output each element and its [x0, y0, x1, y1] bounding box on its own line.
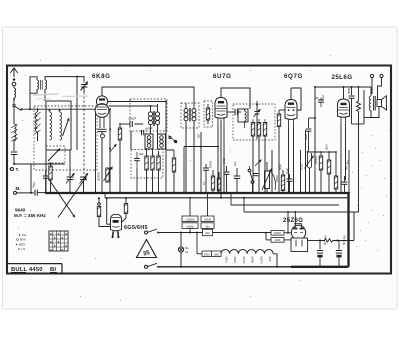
antenna coil hatched: [35, 112, 41, 134]
6K8G anode: [99, 98, 105, 100]
RF coil L3: [59, 110, 62, 140]
eye target resistor: [122, 197, 128, 222]
eye feed wire: [106, 197, 111, 224]
wire v305: [304, 130, 306, 194]
resistor box 20nd: [201, 223, 214, 229]
rect box wires: [265, 232, 291, 240]
transformer T1 secondary: [45, 80, 47, 89]
wire secondary long: [76, 76, 78, 150]
svg-text:2μF: 2μF: [233, 161, 237, 166]
wire v250: [249, 88, 251, 109]
25L6G heater legs: [341, 117, 346, 124]
tube 6U7G envelope: [215, 98, 227, 119]
wire v54: [50, 163, 52, 166]
terminal T: [9, 167, 19, 172]
box 15000a wires: [189, 197, 191, 234]
resistor box 150: [271, 231, 284, 236]
T1 primary leads: [30, 77, 37, 93]
svg-text:20n: 20n: [205, 231, 210, 235]
trimmer capacitor C1: [81, 82, 89, 91]
osc coil box 1: [145, 134, 153, 149]
heater chain end: [273, 254, 278, 268]
svg-text:2000: 2000: [275, 239, 281, 242]
capacitor 450pF: [142, 126, 154, 135]
resistor R14: [334, 151, 337, 194]
svg-text:BV6: BV6: [20, 238, 26, 242]
grid cap G: [101, 134, 105, 138]
25Z6G plate leads: [294, 211, 301, 228]
wire antenna down: [13, 107, 15, 125]
25L6G anode: [341, 103, 347, 105]
capacitor 3uF: [134, 152, 144, 168]
svg-text:x: x: [61, 248, 63, 252]
svg-text:x: x: [54, 244, 56, 248]
25L6G grids: [338, 108, 349, 115]
wire 6K8G cathode bus: [101, 132, 103, 194]
padder resistor Rb: [151, 156, 154, 170]
resistor box 15000c: [201, 216, 214, 222]
B+ thick vertical: [347, 193, 349, 267]
transformer T1 primary: [37, 80, 39, 89]
bus y212: [243, 197, 359, 212]
bus junction dots: [45, 192, 346, 194]
wire R2: [119, 124, 121, 194]
padder resistor Rc: [157, 156, 160, 170]
svg-text:(5000): (5000): [314, 156, 318, 164]
IF2 coil a: [184, 109, 188, 121]
cathode wire y146: [183, 146, 219, 194]
T1 secondary top lead: [45, 77, 84, 83]
svg-text:6U7G: 6U7G: [242, 257, 246, 264]
svg-text:PU.: PU.: [22, 233, 27, 237]
tube 25Z6G envelope: [291, 225, 305, 239]
svg-text:50pF: 50pF: [304, 134, 308, 140]
R8 wires: [278, 110, 285, 194]
coil box: [46, 101, 71, 150]
mains switch upper: [145, 229, 159, 234]
mains switch lower: [145, 263, 159, 268]
wire v95: [94, 108, 96, 194]
loudspeaker: [377, 96, 387, 110]
svg-text:15000: 15000: [274, 232, 282, 235]
tone wires: [352, 124, 365, 212]
resistor box 1Mb: [182, 223, 198, 229]
padder resistor Ra: [145, 156, 148, 170]
osc grid resistor: [97, 167, 113, 183]
25L6G leg wires: [340, 124, 346, 194]
filter cap 1: [317, 235, 328, 268]
wire CV1: [69, 150, 71, 194]
svg-text:9640: 9640: [15, 208, 26, 213]
6Q7G leg wires: [287, 127, 294, 194]
wire ant coil stub: [37, 108, 39, 141]
6G5 legs: [112, 231, 120, 238]
wire v201: [198, 132, 202, 194]
6U7G anode: [218, 101, 224, 103]
band switch arrow: [48, 149, 60, 162]
svg-text:x: x: [50, 232, 52, 236]
svg-text:3μF: 3μF: [139, 152, 144, 156]
6K8G plate lead: [102, 87, 194, 105]
6U7G grids: [216, 106, 227, 115]
dashed box RF unit: [34, 106, 97, 170]
main chassis bus: [46, 192, 349, 194]
svg-text:25Z6: 25Z6: [233, 257, 237, 264]
svg-text:6G5/6H5: 6G5/6H5: [124, 225, 148, 231]
6Q7G anode: [288, 103, 294, 105]
svg-text:6Q7G: 6Q7G: [284, 73, 303, 80]
tone resistor: [357, 86, 361, 124]
svg-text:50000: 50000: [276, 174, 279, 182]
dashed box diode load: [233, 104, 275, 140]
resistor R5: [251, 123, 254, 137]
resistor R8: [277, 114, 280, 127]
svg-text:300: 300: [198, 133, 201, 138]
heater chain: [221, 249, 273, 253]
coil adjust arrow: [63, 118, 70, 136]
right feed line: [309, 150, 351, 194]
IF1 coil a: [148, 112, 152, 125]
resistor R1: [49, 166, 52, 180]
svg-text:T.: T.: [16, 167, 19, 172]
resistor R10: [217, 172, 220, 194]
antenna fuse: [12, 82, 16, 88]
wire CV2 bus: [82, 180, 84, 194]
svg-text:BEG: BEG: [19, 243, 26, 247]
svg-text:(1MΩ): (1MΩ): [186, 224, 193, 228]
resistor R13: [326, 144, 331, 194]
svg-text:x: x: [61, 236, 63, 240]
capacitor C5: [228, 109, 242, 115]
svg-text:1A: 1A: [185, 250, 189, 254]
dashed box 6U7 bias: [204, 101, 213, 127]
25Z6G base box: [291, 238, 308, 252]
svg-text:15000: 15000: [204, 218, 212, 222]
25Z6G anodes: [293, 228, 304, 233]
tube 6G5 eye: [111, 214, 122, 231]
6K8G heater legs: [100, 117, 104, 124]
filter wire right: [338, 212, 355, 241]
faint smudges: [33, 94, 88, 99]
6U7G leg wires: [217, 126, 225, 199]
IF1 coil b: [155, 112, 159, 125]
6U7G plate lead: [221, 88, 250, 104]
wire v257: [256, 101, 258, 139]
title text BULL 4450 BI: [11, 267, 57, 273]
svg-text:25L6: 25L6: [225, 257, 229, 263]
svg-text:6Q7G: 6Q7G: [259, 257, 263, 264]
wire v300: [299, 150, 301, 194]
label 6U7G: [213, 73, 232, 80]
coupling coil box: [238, 109, 248, 122]
tuning gang link arrow 1: [48, 178, 75, 218]
svg-text:(20000): (20000): [97, 172, 101, 181]
antenna coil small: [13, 88, 16, 100]
label 6Q7G: [284, 73, 303, 80]
label 9640: [15, 208, 26, 213]
dashed box padder: [131, 150, 163, 179]
wire cap to bus: [37, 192, 46, 194]
6Q7G heater legs: [289, 120, 294, 128]
wire v31: [30, 164, 32, 194]
antenna terminal: [10, 68, 17, 81]
wire screen vertical: [314, 86, 344, 194]
label MF 465 KHz: [14, 213, 46, 218]
eye grid resistor: [97, 197, 110, 226]
svg-text:25L6G: 25L6G: [332, 74, 353, 81]
capacitor 335pF: [119, 116, 143, 127]
resistor box 1500: [202, 251, 212, 257]
heater line left: [196, 232, 202, 254]
label 25L6G: [332, 74, 353, 81]
resistor box 15000a: [182, 216, 198, 222]
wire v111: [109, 108, 111, 194]
6Q7G top lead: [290, 88, 292, 100]
connection table: [49, 231, 68, 252]
capacitor C3: [43, 170, 48, 194]
resistor R6: [257, 123, 260, 137]
resistor R2 20000: [118, 128, 121, 140]
wire cap to AVC: [13, 155, 15, 166]
speaker terminal wires: [371, 78, 381, 99]
tuning gang link arrow 2: [58, 177, 87, 218]
resistor R7: [263, 123, 266, 137]
wave switch S1: [13, 100, 23, 111]
capacitor C7: [202, 164, 209, 194]
svg-text:8000: 8000: [347, 88, 351, 94]
variable capacitor CV2: [80, 173, 89, 184]
tube 6K8G envelope: [95, 96, 109, 118]
svg-text:x: x: [50, 240, 52, 244]
svg-text:M.: M.: [16, 186, 21, 191]
svg-text:(500): (500): [326, 144, 329, 150]
output transformer core: [374, 96, 376, 111]
schematic border frame: [7, 66, 391, 274]
resistor R3: [172, 158, 175, 172]
wire R1 bus: [49, 180, 51, 194]
resistor R12: [314, 151, 322, 194]
osc coil box 2: [158, 134, 166, 149]
svg-text:50000: 50000: [209, 160, 213, 168]
resistor box 1M: [212, 251, 222, 257]
pickup switch: [248, 166, 258, 194]
resistor R11: [279, 164, 285, 194]
capacitor antenna series: [11, 152, 17, 155]
resistor R9: [209, 160, 215, 194]
svg-text:x: x: [65, 244, 67, 248]
wire v288: [287, 211, 289, 233]
dashed box band switch: [46, 146, 65, 163]
wire R3: [166, 150, 175, 194]
volume potentiometer: [255, 160, 279, 194]
IF2 core: [189, 108, 190, 122]
speaker terminals: [370, 74, 383, 77]
bus y205: [230, 192, 339, 205]
label 6K8G: [92, 73, 111, 80]
IF1 wires: [150, 104, 158, 134]
title box: [7, 264, 62, 274]
IF2 coil b: [192, 109, 196, 121]
wire v137: [136, 168, 138, 194]
field hairpin resistor: [300, 151, 314, 194]
label 25Z6G: [283, 218, 303, 224]
box 15000c wires: [207, 193, 209, 229]
svg-text:1MΩ: 1MΩ: [213, 252, 219, 256]
wire v272: [271, 150, 273, 194]
trimmer C6: [254, 109, 261, 117]
6Q7G plate loop: [291, 88, 301, 110]
capacitor 30pF: [315, 94, 325, 107]
osc coil L4: [147, 136, 151, 148]
speaker field vertical: [363, 87, 365, 124]
dashed box IF1: [130, 99, 167, 131]
resistor box 250: [271, 238, 284, 243]
svg-text:4450: 4450: [29, 267, 43, 273]
wire v166: [165, 102, 167, 194]
svg-text:20n: 20n: [205, 224, 210, 228]
capacitor box 20n: [203, 229, 213, 235]
svg-text:x: x: [50, 248, 52, 252]
6K8G grid lead right: [109, 105, 151, 107]
heater labels: [225, 257, 273, 264]
IF1 core: [154, 111, 155, 126]
output transformer primary: [369, 87, 371, 118]
dashed box IF2: [181, 103, 199, 128]
svg-text:6K8G: 6K8G: [251, 257, 255, 264]
6Q7G diode plates: [287, 107, 296, 115]
label 6G5/6H5: [124, 225, 148, 231]
capacitor C10: [285, 168, 292, 194]
capacitor C9: [233, 161, 240, 194]
svg-text:x: x: [54, 236, 56, 240]
capacitor 50pF right: [304, 117, 316, 152]
capacitor C8: [222, 158, 229, 193]
osc coil L5: [160, 136, 164, 148]
svg-text:6,3V: 6,3V: [300, 164, 304, 170]
mains line lower: [158, 266, 291, 268]
padder wires: [145, 148, 159, 194]
legend text: [16, 233, 27, 251]
pilot lamp wires: [180, 232, 182, 268]
svg-text:1500: 1500: [204, 252, 210, 256]
T1 core: [41, 80, 43, 90]
warning triangle 35: [137, 240, 157, 258]
capacitor C11: [342, 159, 351, 193]
25Z6G output lead: [308, 240, 321, 242]
RF coil L2: [49, 110, 52, 140]
svg-text:10μF: 10μF: [285, 168, 289, 174]
filter cap 2: [336, 235, 347, 268]
svg-text:6G5: 6G5: [268, 257, 272, 263]
coupling coil L6: [245, 109, 247, 128]
svg-text:6K8G: 6K8G: [92, 73, 111, 80]
6K8G grids: [97, 105, 107, 115]
svg-text:x: x: [58, 240, 60, 244]
AVC line: [14, 163, 65, 165]
wire v131: [130, 131, 132, 149]
variable capacitor CV1: [66, 173, 75, 184]
IF2 leads: [185, 103, 195, 194]
svg-text:LS: LS: [22, 247, 26, 251]
6K8G cathode cap: [98, 124, 107, 132]
svg-text:x: x: [65, 232, 67, 236]
svg-text:1MΩ: 1MΩ: [222, 158, 226, 164]
svg-text:x: x: [58, 232, 60, 236]
terminal M: [14, 186, 21, 194]
tube 6Q7G envelope: [285, 100, 297, 120]
6U7G heater legs: [218, 119, 224, 129]
diode load wires: [252, 119, 266, 194]
svg-text:25Z6G: 25Z6G: [283, 218, 303, 224]
T1 secondary bottom lead: [44, 89, 46, 101]
svg-text:6U7G: 6U7G: [213, 73, 232, 80]
antenna loading coil: [11, 124, 18, 141]
resistor R4: [206, 104, 209, 124]
B+ bus: [104, 192, 349, 198]
speaker bottom wires: [364, 107, 379, 118]
pilot lamp: [178, 246, 188, 254]
wire switch to tube: [22, 108, 96, 110]
capacitor 8000pF: [347, 86, 354, 124]
filter resistor: [319, 239, 338, 242]
svg-text:M.F. = 465 KHz: M.F. = 465 KHz: [14, 213, 46, 218]
25Z6G heaters: [296, 240, 302, 247]
svg-text:(15000): (15000): [186, 218, 195, 222]
B+ thick bottom: [291, 266, 349, 268]
band contacts: [169, 136, 178, 144]
wire trimmer down: [83, 87, 85, 174]
6K8G plate lead right: [108, 101, 167, 103]
mains line upper: [158, 232, 271, 234]
capacitor C2 50pF: [31, 181, 37, 196]
wire M to cap: [17, 192, 35, 194]
paper speckles: [18, 48, 390, 301]
svg-text:0,1: 0,1: [202, 181, 206, 185]
osc switch arrow: [109, 144, 116, 153]
wire coil to AVC line: [13, 141, 15, 151]
tube 25L6G envelope: [338, 99, 350, 117]
25L6G plate lead: [343, 86, 371, 99]
wire T1 to switch: [29, 93, 31, 110]
svg-text:5000: 5000: [279, 164, 283, 170]
wire v46: [45, 150, 47, 194]
